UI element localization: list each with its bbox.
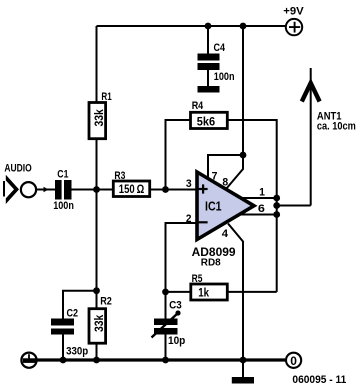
svg-text:C1: C1 (57, 169, 69, 181)
svg-text:RD8: RD8 (201, 258, 221, 269)
svg-text:8: 8 (222, 176, 228, 188)
svg-text:0: 0 (290, 354, 297, 368)
svg-text:R2: R2 (100, 296, 112, 308)
svg-text:150 Ω: 150 Ω (119, 182, 144, 196)
svg-text:R5: R5 (192, 273, 203, 285)
svg-text:R3: R3 (114, 170, 125, 182)
svg-text:100n: 100n (53, 200, 74, 212)
svg-text:33k: 33k (92, 314, 106, 332)
svg-text:330p: 330p (66, 346, 88, 358)
svg-text:10p: 10p (168, 335, 185, 347)
svg-text:2: 2 (186, 213, 192, 225)
svg-text:1k: 1k (198, 286, 209, 300)
svg-text:C2: C2 (67, 308, 79, 320)
svg-text:5k6: 5k6 (197, 115, 216, 129)
svg-text:ca. 10cm: ca. 10cm (317, 121, 356, 133)
svg-text:R1: R1 (101, 91, 112, 103)
svg-text:IC1: IC1 (205, 199, 222, 214)
svg-text:6: 6 (258, 203, 265, 215)
svg-text:R4: R4 (192, 100, 204, 112)
svg-text:AUDIO: AUDIO (4, 163, 31, 175)
svg-text:C3: C3 (169, 299, 182, 311)
svg-text:4: 4 (222, 228, 229, 240)
svg-text:7: 7 (212, 171, 218, 183)
svg-text:33k: 33k (92, 109, 106, 127)
svg-text:C4: C4 (214, 42, 226, 54)
svg-text:1: 1 (259, 187, 265, 199)
svg-text:060095 - 11: 060095 - 11 (292, 374, 346, 386)
svg-text:100n: 100n (214, 71, 235, 83)
svg-text:+9V: +9V (283, 5, 304, 17)
svg-text:3: 3 (186, 178, 192, 190)
